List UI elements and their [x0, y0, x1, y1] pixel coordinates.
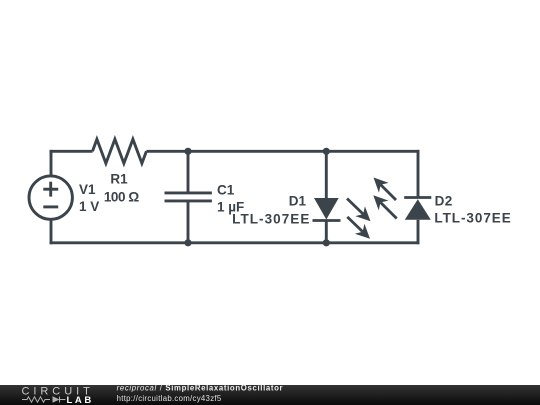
svg-text:http://circuitlab.com/cy43zf5: http://circuitlab.com/cy43zf5: [117, 394, 222, 403]
wire V1 top lead: [50, 150, 53, 177]
svg-text:D2: D2: [435, 193, 453, 208]
capacitor C1: [165, 193, 212, 201]
wire top rail D1 node to D2: [326, 150, 419, 153]
svg-text:LAB: LAB: [67, 395, 94, 405]
wire V1 bottom lead: [50, 219, 53, 245]
svg-text:1 V: 1 V: [79, 199, 99, 214]
voltage source V1: [29, 176, 72, 219]
wire top rail V1 to R1: [50, 150, 93, 153]
node bottom of C1: [184, 239, 191, 246]
wire bottom rail: [50, 241, 420, 244]
wire D1 top lead: [325, 151, 328, 198]
wire C1 bottom lead: [187, 201, 190, 243]
CircuitLab logo diode triangle: [53, 396, 60, 402]
wire C1 top lead: [187, 151, 190, 193]
LED D1: [313, 198, 371, 239]
node top of D1: [323, 148, 330, 155]
svg-text:LTL-307EE: LTL-307EE: [232, 211, 310, 226]
node bottom of D1: [323, 239, 330, 246]
wire top rail C1 node to D1 node: [188, 150, 326, 153]
svg-text:V1: V1: [79, 182, 96, 197]
svg-text:100 Ω: 100 Ω: [104, 190, 139, 205]
svg-text:reciprocal / SimpleRelaxationO: reciprocal / SimpleRelaxationOscillator: [117, 384, 284, 393]
node top of C1: [184, 148, 191, 155]
svg-text:R1: R1: [110, 172, 128, 187]
footer bar: [0, 385, 540, 405]
wire D2 bottom lead: [417, 220, 420, 244]
CircuitLab logo schematic line (resistor + diode): [22, 397, 66, 403]
wire D1 bottom lead: [325, 221, 328, 243]
svg-text:D1: D1: [289, 194, 307, 209]
wire top rail R1 to C1 node: [146, 150, 188, 153]
svg-text:LTL-307EE: LTL-307EE: [434, 210, 511, 225]
svg-text:C1: C1: [217, 183, 235, 198]
wire D2 top lead: [417, 150, 420, 198]
resistor R1: [93, 139, 147, 163]
LED D2: [373, 178, 431, 220]
